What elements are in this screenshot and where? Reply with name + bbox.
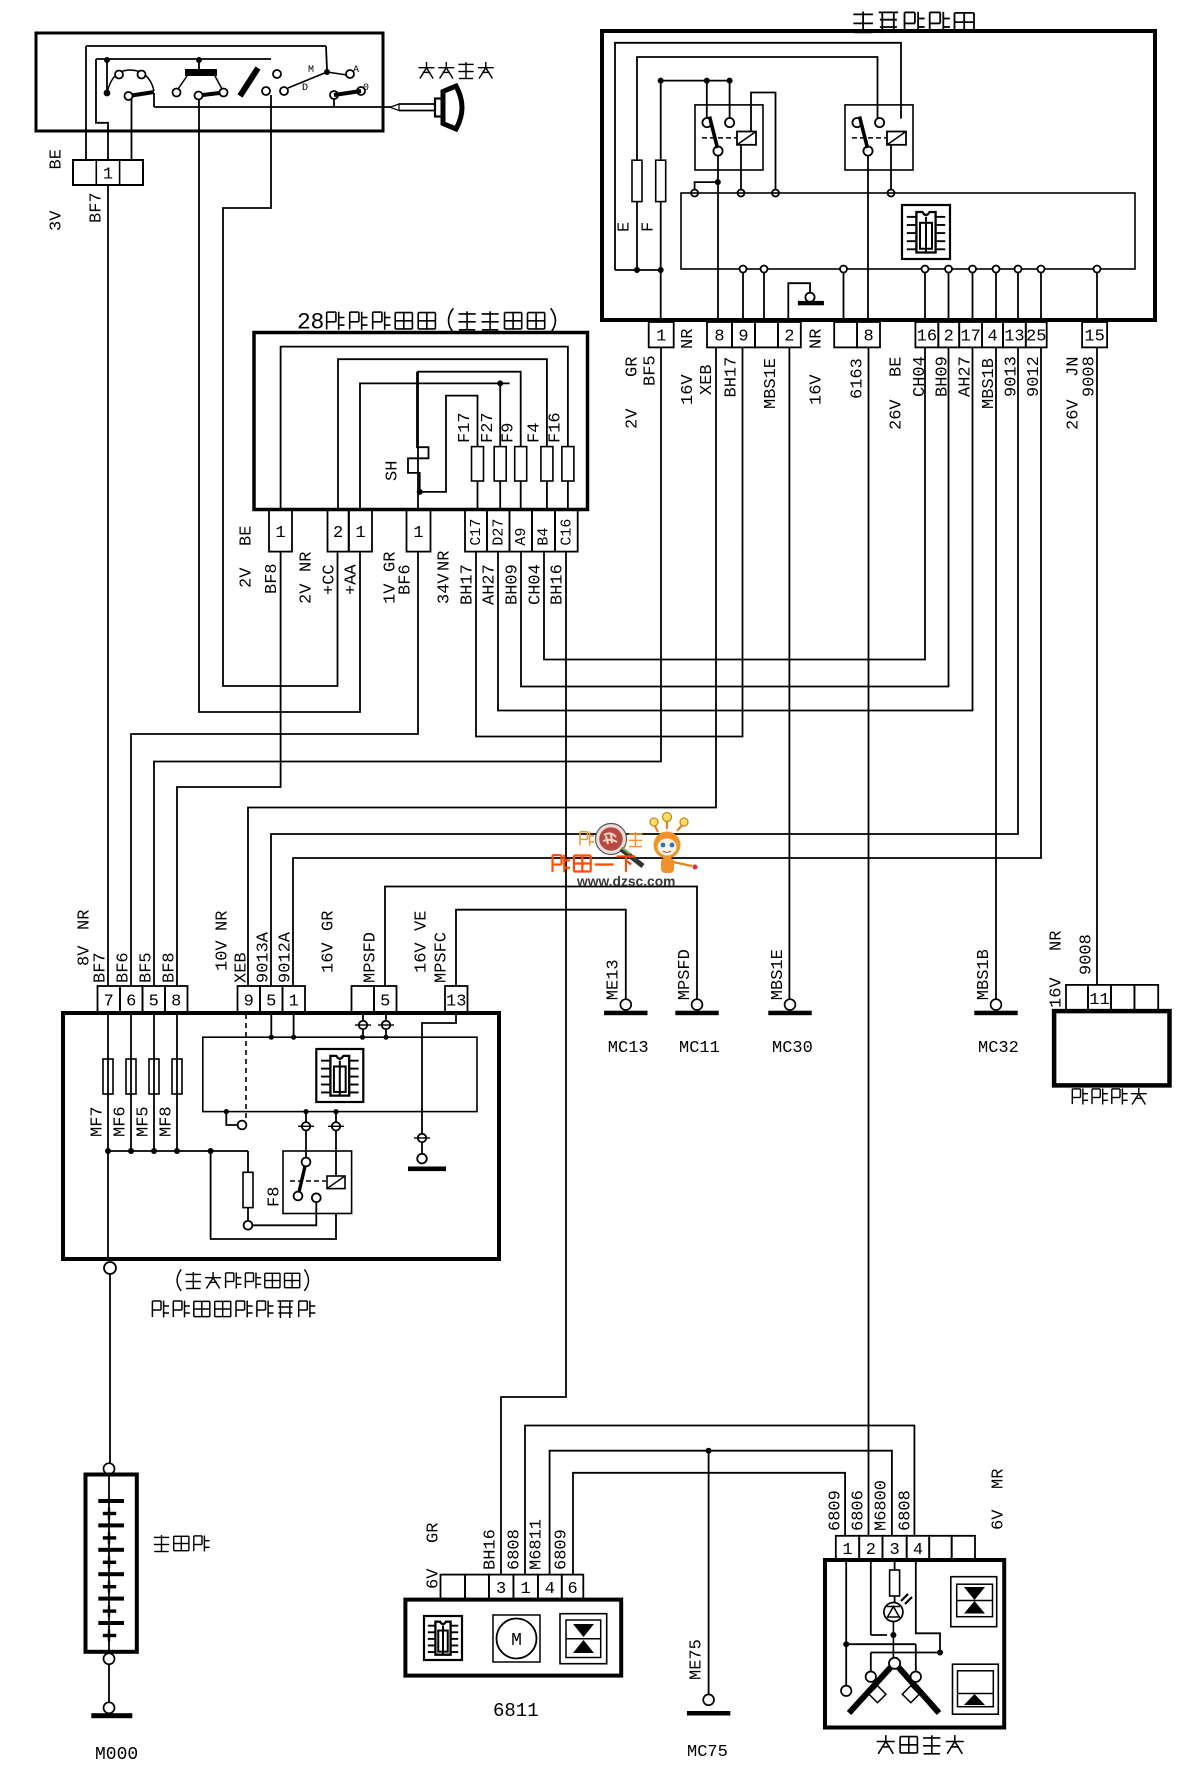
svg-text:BF7: BF7 (92, 952, 111, 983)
svg-text:BF5: BF5 (642, 355, 661, 386)
svg-text:XEB: XEB (698, 364, 717, 395)
svg-text:26V: 26V (888, 399, 907, 430)
svg-text:11: 11 (1089, 991, 1109, 1010)
svg-text:BE: BE (888, 357, 907, 377)
svg-text:16: 16 (917, 328, 937, 347)
svg-text:BH17: BH17 (459, 564, 478, 605)
svg-text:F17: F17 (456, 412, 475, 443)
svg-text:D: D (302, 83, 308, 94)
svg-text:16V: 16V (413, 942, 432, 973)
svg-text:F27: F27 (479, 412, 498, 443)
svg-text:1: 1 (275, 524, 285, 543)
svg-text:2: 2 (784, 328, 794, 347)
svg-text:6811: 6811 (493, 1700, 539, 1722)
svg-text:6: 6 (567, 1580, 577, 1599)
svg-text:13: 13 (1004, 328, 1024, 347)
svg-text:BH16: BH16 (482, 1529, 501, 1570)
svg-text:5: 5 (149, 993, 159, 1012)
svg-text:15: 15 (1084, 328, 1104, 347)
svg-text:17: 17 (960, 328, 980, 347)
svg-text:8: 8 (714, 328, 724, 347)
svg-text:NR: NR (1048, 931, 1067, 951)
svg-text:MC75: MC75 (687, 1743, 728, 1762)
svg-text:ME75: ME75 (687, 1639, 706, 1680)
svg-text:BE: BE (238, 526, 257, 546)
svg-text:M000: M000 (95, 1745, 138, 1765)
svg-text:BF6: BF6 (397, 564, 416, 595)
svg-text:4: 4 (545, 1580, 555, 1599)
svg-text:5: 5 (380, 993, 390, 1012)
svg-text:1: 1 (413, 524, 423, 543)
svg-text:CH04: CH04 (911, 356, 930, 397)
svg-text:BF8: BF8 (161, 952, 180, 983)
svg-text:16V: 16V (1048, 977, 1067, 1008)
svg-text:MC11: MC11 (679, 1039, 720, 1058)
svg-text:1: 1 (103, 166, 113, 185)
svg-text:2: 2 (333, 524, 343, 543)
svg-text:F: F (640, 222, 659, 232)
svg-text:4: 4 (987, 328, 997, 347)
svg-text:NR: NR (808, 329, 827, 349)
svg-text:MF5: MF5 (135, 1106, 154, 1137)
svg-text:2: 2 (866, 1541, 876, 1560)
svg-text:6808: 6808 (506, 1529, 525, 1570)
svg-text:BH17: BH17 (722, 357, 741, 398)
svg-text:NR: NR (436, 551, 455, 571)
svg-text:16V: 16V (679, 374, 698, 405)
svg-text:8: 8 (863, 328, 873, 347)
svg-text:M: M (511, 1631, 522, 1651)
svg-text:BF5: BF5 (138, 952, 157, 983)
svg-text:F8: F8 (266, 1187, 285, 1207)
svg-text:MBS1E: MBS1E (769, 949, 788, 1000)
svg-text:E: E (616, 222, 635, 232)
svg-text:MR: MR (990, 1469, 1009, 1489)
svg-text:6V: 6V (425, 1568, 444, 1589)
svg-text:MPSFD: MPSFD (676, 949, 695, 1000)
svg-text:MC32: MC32 (978, 1039, 1019, 1058)
svg-text:C17: C17 (468, 519, 485, 546)
svg-text:MC30: MC30 (772, 1039, 813, 1058)
svg-text:BH09: BH09 (934, 356, 953, 397)
svg-text:9012A: 9012A (277, 931, 296, 983)
svg-text:BH09: BH09 (504, 564, 523, 605)
svg-text:6806: 6806 (850, 1490, 869, 1531)
svg-text:CH04: CH04 (527, 564, 546, 605)
svg-text:5: 5 (266, 993, 276, 1012)
svg-text:3: 3 (496, 1580, 506, 1599)
svg-text:2V: 2V (624, 408, 643, 429)
svg-text:M6800: M6800 (873, 1480, 892, 1531)
svg-text:AH27: AH27 (956, 356, 975, 397)
svg-text:7: 7 (104, 993, 114, 1012)
svg-text:16V: 16V (320, 942, 339, 973)
svg-text:1: 1 (842, 1541, 852, 1560)
svg-text:www.dzsc.com: www.dzsc.com (576, 874, 675, 889)
svg-text:9: 9 (738, 328, 748, 347)
svg-text:SH: SH (384, 461, 403, 481)
svg-text:BF7: BF7 (88, 192, 107, 223)
svg-text:A9: A9 (513, 528, 530, 546)
svg-text:VE: VE (413, 911, 432, 931)
svg-text:3V: 3V (48, 210, 67, 231)
svg-text:1: 1 (289, 993, 299, 1012)
svg-text:MBS1E: MBS1E (762, 358, 781, 409)
svg-text:ME13: ME13 (605, 959, 624, 1000)
svg-text:NR: NR (298, 552, 317, 572)
svg-text:BF6: BF6 (115, 952, 134, 983)
svg-text:6809: 6809 (553, 1529, 572, 1570)
svg-text:NR: NR (76, 910, 95, 930)
svg-text:13: 13 (446, 993, 466, 1012)
svg-text:NR: NR (214, 911, 233, 931)
svg-text:6: 6 (126, 993, 136, 1012)
svg-text:GR: GR (624, 357, 643, 377)
svg-text:MF8: MF8 (158, 1106, 177, 1137)
svg-text:F9: F9 (499, 423, 518, 443)
svg-text:6163: 6163 (848, 358, 867, 399)
svg-text:1: 1 (656, 328, 666, 347)
svg-text:4: 4 (913, 1541, 923, 1560)
svg-text:9: 9 (244, 993, 254, 1012)
svg-text:BF8: BF8 (263, 563, 282, 594)
svg-text:XEB: XEB (233, 952, 252, 983)
svg-text:MC13: MC13 (608, 1039, 649, 1058)
svg-text:2V: 2V (298, 583, 317, 604)
svg-text:9013A: 9013A (255, 931, 274, 983)
svg-text:MBS1B: MBS1B (975, 949, 994, 1000)
svg-text:NR: NR (679, 329, 698, 349)
svg-text:10V: 10V (214, 940, 233, 971)
svg-text:6V: 6V (990, 1509, 1009, 1530)
svg-text:16V: 16V (808, 374, 827, 405)
svg-text:M: M (308, 65, 314, 76)
svg-text:2: 2 (944, 328, 954, 347)
svg-text:M6811: M6811 (528, 1519, 547, 1570)
svg-text:1: 1 (521, 1580, 531, 1599)
svg-text:MF7: MF7 (89, 1106, 108, 1137)
svg-text:3: 3 (889, 1541, 899, 1560)
svg-text:F16: F16 (546, 412, 565, 443)
svg-text:25: 25 (1026, 328, 1046, 347)
svg-text:BE: BE (48, 149, 67, 169)
svg-text:MF6: MF6 (112, 1106, 131, 1137)
svg-text:9008: 9008 (1078, 934, 1097, 975)
svg-text:B4: B4 (536, 528, 553, 546)
svg-text:MPSFD: MPSFD (362, 932, 381, 983)
svg-text:6808: 6808 (896, 1490, 915, 1531)
svg-text:26V: 26V (1065, 399, 1084, 430)
svg-text:8: 8 (171, 993, 181, 1012)
svg-text:MPSFC: MPSFC (433, 932, 452, 983)
svg-text:+AA: +AA (343, 564, 362, 595)
svg-text:2V: 2V (238, 567, 257, 588)
svg-text:+CC: +CC (321, 564, 340, 595)
svg-text:GR: GR (425, 1523, 444, 1543)
svg-text:34V: 34V (436, 573, 455, 604)
svg-text:C16: C16 (558, 519, 575, 546)
svg-text:GR: GR (320, 911, 339, 931)
svg-text:6809: 6809 (827, 1490, 846, 1531)
svg-text:AH27: AH27 (481, 564, 500, 605)
svg-text:BH16: BH16 (549, 564, 568, 605)
svg-text:F4: F4 (525, 423, 544, 443)
svg-text:D27: D27 (490, 519, 507, 546)
svg-text:1: 1 (355, 524, 365, 543)
